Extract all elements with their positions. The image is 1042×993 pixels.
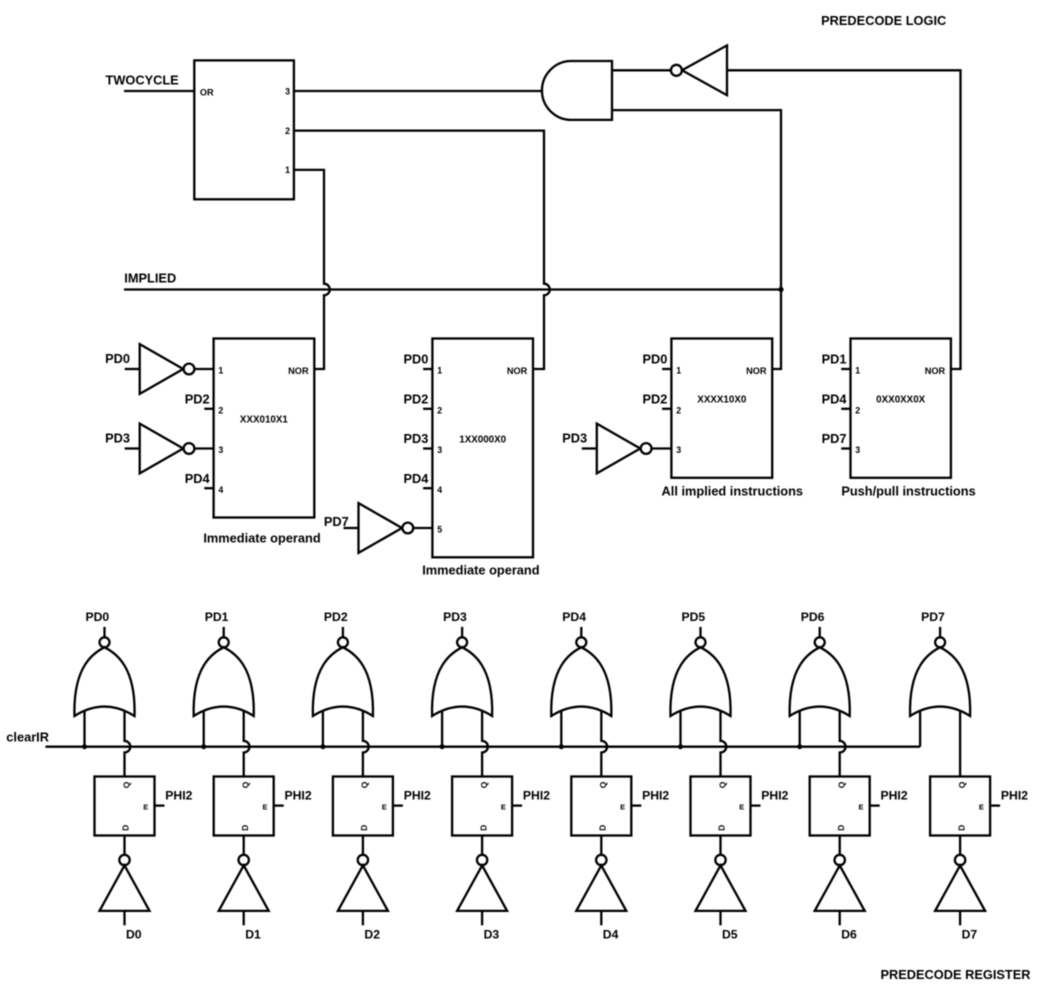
bubble of G5 <box>696 637 706 647</box>
junction dot on clearIR <box>201 744 206 749</box>
bubble of G7 <box>935 637 945 647</box>
wire inverter to D3 <box>481 911 483 925</box>
wire left input leg <box>679 708 681 747</box>
wire right leg (hops clearIR) to latch <box>482 708 488 777</box>
inverter I7 (pointing up) <box>935 865 985 911</box>
svg-text:1: 1 <box>855 366 860 376</box>
wire PHI2 stub <box>751 804 761 806</box>
bubble of G3 <box>457 637 467 647</box>
wire PHI2 stub <box>155 804 165 806</box>
svg-text:1: 1 <box>676 366 681 376</box>
wire PD6 to NOR bubble <box>819 627 821 637</box>
bubble <box>641 443 652 454</box>
svg-text:IMPLIED: IMPLIED <box>124 271 176 286</box>
bubble of G1 <box>219 637 229 647</box>
svg-text:2: 2 <box>218 405 223 415</box>
svg-text:PD2: PD2 <box>185 391 210 406</box>
svg-text:3: 3 <box>437 445 442 455</box>
bubble of inverter U3 <box>671 65 682 76</box>
inverter for PD3 <box>140 424 184 474</box>
bubble of G6 <box>815 637 825 647</box>
svg-text:PD2: PD2 <box>403 391 428 406</box>
svg-text:All implied instructions: All implied instructions <box>662 484 804 499</box>
svg-text:PHI2: PHI2 <box>404 789 431 803</box>
svg-text:PD4: PD4 <box>403 471 429 486</box>
svg-text:clearIR: clearIR <box>6 729 49 744</box>
wire input stub pin 1 <box>662 368 671 370</box>
latch U12 <box>333 777 393 836</box>
wire latch D to inverter <box>481 836 483 855</box>
svg-text:D: D <box>121 825 131 831</box>
wire PD3 to NOR bubble <box>461 627 463 637</box>
svg-text:1XX000X0: 1XX000X0 <box>459 435 506 446</box>
nor-gate box N4 <box>851 339 951 478</box>
svg-text:PD0: PD0 <box>86 610 110 624</box>
nor-gate G2 (pointing up) <box>313 647 373 716</box>
wire latch D to inverter <box>243 836 245 855</box>
nor-gate G6 (pointing up) <box>790 647 850 716</box>
latch U13 <box>452 777 512 836</box>
svg-text:D0: D0 <box>126 928 142 942</box>
svg-text:PD3: PD3 <box>105 430 130 445</box>
inverter for PD0 <box>140 344 184 394</box>
wire OR pin3 to AND output <box>294 90 545 92</box>
svg-text:XXXX10X0: XXXX10X0 <box>697 395 747 406</box>
wire TWOCYCLE input <box>124 90 194 92</box>
wire latch D to inverter <box>362 836 364 855</box>
wire left input leg <box>322 708 324 747</box>
latch U14 <box>571 777 631 836</box>
wire clearIR bus <box>46 746 921 748</box>
svg-text:2: 2 <box>676 405 681 415</box>
svg-text:TWOCYCLE: TWOCYCLE <box>106 72 180 87</box>
inverter I0 (pointing up) <box>100 865 150 911</box>
svg-text:E: E <box>739 802 744 811</box>
wire latch D to inverter <box>123 836 125 855</box>
wire inverter to pin 1 <box>189 368 214 370</box>
svg-text:D: D <box>956 825 966 831</box>
wire PD7 to NOR bubble <box>939 627 941 637</box>
svg-text:NOR: NOR <box>288 366 309 376</box>
wire right leg (hops clearIR) to latch <box>601 708 607 777</box>
bubble of inverter I6 <box>835 855 845 865</box>
svg-text:PHI2: PHI2 <box>642 789 669 803</box>
wire PD1 to NOR bubble <box>223 627 225 637</box>
inverter I2 (pointing up) <box>338 865 388 911</box>
svg-text:4: 4 <box>437 485 442 495</box>
svg-text:E: E <box>262 802 267 811</box>
wire input stub pin 2 <box>423 408 432 410</box>
wire left input leg <box>203 708 205 747</box>
wire PD7 input <box>344 527 359 529</box>
wire PHI2 stub <box>393 804 403 806</box>
svg-text:D: D <box>836 825 846 831</box>
latch U15 <box>691 777 751 836</box>
svg-text:PHI2: PHI2 <box>523 789 550 803</box>
svg-text:PD4: PD4 <box>562 610 586 624</box>
wire inverter U3 input from right bus <box>727 70 961 369</box>
bubble <box>402 523 413 534</box>
wire inverter to pin 5 <box>408 527 433 529</box>
bubble <box>184 443 195 454</box>
wire latch D to inverter <box>839 836 841 855</box>
svg-text:D: D <box>240 825 250 831</box>
latch U10 <box>95 777 155 836</box>
wire right leg (hops clearIR) to latch <box>244 708 250 777</box>
wire PD4 to NOR bubble <box>580 627 582 637</box>
wire inverter to pin 3 <box>646 447 671 449</box>
svg-text:PD2: PD2 <box>324 610 348 624</box>
wire inverter to D2 <box>362 911 364 925</box>
bubble of G0 <box>100 637 110 647</box>
svg-text:1: 1 <box>218 366 223 376</box>
wire inverter to D7 <box>959 911 961 925</box>
svg-text:3: 3 <box>676 445 681 455</box>
wire right leg (hops clearIR) to latch <box>363 708 369 777</box>
bubble of inverter I3 <box>477 855 487 865</box>
wire left input leg <box>560 708 562 747</box>
wire right leg (hops clearIR) to latch <box>840 708 846 777</box>
svg-text:Q: Q <box>360 781 370 788</box>
svg-text:PHI2: PHI2 <box>1001 789 1028 803</box>
wire inverter to pin 3 <box>189 447 214 449</box>
wire PD2 to NOR bubble <box>342 627 344 637</box>
svg-text:PHI2: PHI2 <box>881 789 908 803</box>
wire OR pin2 to NOR2 output (hops IMPLIED) <box>294 131 550 369</box>
svg-text:3: 3 <box>285 87 290 97</box>
wire PD5 to NOR bubble <box>699 627 701 637</box>
svg-text:OR: OR <box>200 87 214 97</box>
nor-gate G0 (pointing up) <box>74 647 134 716</box>
wire PHI2 stub <box>631 804 641 806</box>
svg-text:D4: D4 <box>603 928 619 942</box>
svg-text:E: E <box>979 802 984 811</box>
wire left input leg <box>919 708 921 747</box>
svg-text:PD4: PD4 <box>822 391 848 406</box>
wire inverter to D1 <box>243 911 245 925</box>
bubble of inverter I0 <box>119 855 129 865</box>
inverter U3 (pointing left) <box>682 45 727 95</box>
svg-text:D7: D7 <box>962 928 978 942</box>
junction dot on clearIR <box>797 744 802 749</box>
wire PD3 input <box>582 447 597 449</box>
svg-text:E: E <box>501 802 506 811</box>
wire IMPLIED <box>124 288 781 290</box>
wire input stub pin 4 <box>423 487 432 489</box>
svg-text:4: 4 <box>218 485 223 495</box>
svg-text:NOR: NOR <box>746 366 767 376</box>
svg-text:D6: D6 <box>841 928 857 942</box>
bubble of G4 <box>576 637 586 647</box>
wire PHI2 stub <box>512 804 522 806</box>
wire OR pin1 to NOR1 output (hops IMPLIED) <box>294 170 330 369</box>
junction dot on clearIR <box>678 744 683 749</box>
junction dot on clearIR <box>82 744 87 749</box>
wire AND bottom input from vertical bus <box>612 110 781 369</box>
wire PHI2 stub <box>274 804 284 806</box>
svg-text:E: E <box>858 802 863 811</box>
bubble of inverter I5 <box>715 855 725 865</box>
svg-text:PD7: PD7 <box>921 610 945 624</box>
junction dot on clearIR <box>440 744 445 749</box>
bubble of G2 <box>338 637 348 647</box>
wire input stub pin 2 <box>204 408 213 410</box>
svg-text:Q: Q <box>121 781 131 788</box>
nor-gate G7 (pointing up) <box>910 647 970 716</box>
wire PD0 input <box>125 368 140 370</box>
wire input stub pin 3 <box>423 447 432 449</box>
svg-text:PD0: PD0 <box>105 351 130 366</box>
svg-text:Push/pull instructions: Push/pull instructions <box>841 484 975 499</box>
inverter for PD7 <box>359 503 403 553</box>
wire inverter to D6 <box>839 911 841 925</box>
svg-text:D5: D5 <box>722 928 738 942</box>
nor-gate G3 (pointing up) <box>432 647 492 716</box>
svg-text:PREDECODE REGISTER: PREDECODE REGISTER <box>880 967 1030 982</box>
svg-text:PD5: PD5 <box>682 610 706 624</box>
svg-text:Q: Q <box>598 781 608 788</box>
svg-text:2: 2 <box>285 126 290 136</box>
svg-text:1: 1 <box>285 165 290 175</box>
svg-text:Q: Q <box>241 781 251 788</box>
svg-text:XXX010X1: XXX010X1 <box>240 415 288 426</box>
svg-text:Immediate operand: Immediate operand <box>422 562 539 577</box>
svg-text:D: D <box>478 825 488 831</box>
svg-text:E: E <box>143 802 148 811</box>
latch U17 <box>930 777 990 836</box>
or-gate box U1 "OR" <box>194 60 294 199</box>
wire input stub pin 1 <box>423 368 432 370</box>
svg-text:D1: D1 <box>245 928 261 942</box>
junction dot on clearIR <box>320 744 325 749</box>
svg-text:D: D <box>717 825 727 831</box>
wire latch D to inverter <box>959 836 961 855</box>
svg-text:Q: Q <box>957 781 967 788</box>
svg-text:PHI2: PHI2 <box>165 789 192 803</box>
wire PD3 input <box>125 447 140 449</box>
nor-gate G1 (pointing up) <box>194 647 254 716</box>
svg-text:E: E <box>620 802 625 811</box>
svg-text:PD1: PD1 <box>205 610 229 624</box>
wire right leg to latch <box>959 708 961 777</box>
wire input stub pin 1 <box>841 368 850 370</box>
svg-text:D: D <box>598 825 608 831</box>
svg-text:D3: D3 <box>484 928 500 942</box>
bubble of inverter I2 <box>358 855 368 865</box>
bubble of inverter I1 <box>239 855 249 865</box>
svg-text:PD3: PD3 <box>562 430 587 445</box>
wire latch D to inverter <box>719 836 721 855</box>
wire AND top input from inverter <box>612 69 671 71</box>
svg-text:PD1: PD1 <box>822 352 847 367</box>
svg-text:PD6: PD6 <box>801 610 825 624</box>
svg-text:D2: D2 <box>364 928 380 942</box>
svg-text:PD0: PD0 <box>403 352 428 367</box>
svg-text:PHI2: PHI2 <box>761 789 788 803</box>
inverter I6 (pointing up) <box>815 865 865 911</box>
svg-text:E: E <box>382 802 387 811</box>
bubble <box>184 364 195 375</box>
svg-text:PD4: PD4 <box>185 471 211 486</box>
svg-text:NOR: NOR <box>507 366 528 376</box>
nor-gate box N2 <box>432 339 533 558</box>
svg-text:PD3: PD3 <box>443 610 467 624</box>
svg-text:D: D <box>359 825 369 831</box>
junction dot on clearIR <box>559 744 564 749</box>
bubble of inverter I4 <box>596 855 606 865</box>
wire left input leg <box>799 708 801 747</box>
wire inverter to D4 <box>600 911 602 925</box>
wire inverter to D0 <box>123 911 125 925</box>
svg-text:2: 2 <box>437 405 442 415</box>
svg-text:1: 1 <box>437 366 442 376</box>
svg-text:PREDECODE LOGIC: PREDECODE LOGIC <box>821 13 946 28</box>
junction dot IMPLIED/vertical <box>778 287 783 292</box>
wire PHI2 stub <box>990 804 1000 806</box>
svg-text:NOR: NOR <box>925 366 946 376</box>
wire latch D to inverter <box>600 836 602 855</box>
wire input stub pin 3 <box>841 447 850 449</box>
svg-text:5: 5 <box>437 525 442 535</box>
and-gate U2 (mirrored, output left) <box>542 61 612 120</box>
inverter I5 (pointing up) <box>696 865 746 911</box>
wire left input leg <box>441 708 443 747</box>
nor-gate box N1 <box>214 339 315 518</box>
wire input stub pin 4 <box>204 487 213 489</box>
svg-text:Q: Q <box>837 781 847 788</box>
nor-gate G5 (pointing up) <box>670 647 730 716</box>
wire right leg (hops clearIR) to latch <box>125 708 131 777</box>
svg-text:0XX0XX0X: 0XX0XX0X <box>876 395 925 406</box>
latch U11 <box>214 777 274 836</box>
svg-text:PD0: PD0 <box>642 352 667 367</box>
wire right leg (hops clearIR) to latch <box>721 708 727 777</box>
nor-gate box N3 <box>671 339 772 478</box>
svg-text:PD2: PD2 <box>642 391 667 406</box>
wire PHI2 stub <box>870 804 880 806</box>
wire left input leg <box>83 708 85 747</box>
svg-text:3: 3 <box>218 445 223 455</box>
svg-text:Q: Q <box>717 781 727 788</box>
nor-gate G4 (pointing up) <box>551 647 611 716</box>
inverter I4 (pointing up) <box>576 865 626 911</box>
wire PD0 to NOR bubble <box>103 627 105 637</box>
wire input stub pin 2 <box>841 408 850 410</box>
svg-text:2: 2 <box>855 405 860 415</box>
inverter for PD3 <box>597 424 641 474</box>
svg-text:PD7: PD7 <box>822 431 847 446</box>
svg-text:Immediate operand: Immediate operand <box>203 531 320 546</box>
svg-text:3: 3 <box>855 445 860 455</box>
svg-text:Q: Q <box>479 781 489 788</box>
inverter I1 (pointing up) <box>219 865 269 911</box>
wire inverter to D5 <box>719 911 721 925</box>
svg-text:PD3: PD3 <box>403 431 428 446</box>
svg-text:PHI2: PHI2 <box>285 789 312 803</box>
wire input stub pin 2 <box>662 408 671 410</box>
latch U16 <box>810 777 870 836</box>
inverter I3 (pointing up) <box>457 865 507 911</box>
bubble of inverter I7 <box>955 855 965 865</box>
